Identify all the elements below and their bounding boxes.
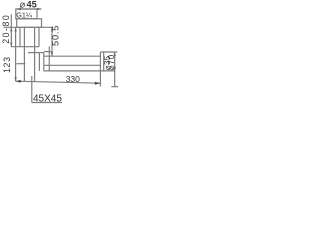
datum line: [16, 81, 101, 83]
pipe top: [44, 55, 101, 57]
arrows dim d45: [17, 8, 22, 10]
dim 123: [15, 27, 17, 81]
flange top ext: [100, 51, 117, 53]
leader 45x45: [31, 76, 33, 103]
dim 50.5: [51, 27, 53, 56]
svg-text:G1¼: G1¼: [16, 10, 33, 19]
svg-text:330: 330: [66, 74, 80, 84]
pipe mid: [44, 64, 101, 66]
svg-text:20-80: 20-80: [1, 15, 11, 44]
body shoulder: [28, 52, 44, 54]
flare y46.7: [11, 46, 39, 48]
underline 45x45: [32, 102, 62, 104]
ext y86.7: [111, 86, 118, 88]
inner tube right: [34, 27, 36, 81]
nut verticals: [38, 53, 40, 71]
pipe bottom: [44, 70, 116, 72]
ext line y27: [4, 26, 54, 28]
arrows d70: [114, 52, 116, 56]
G1 1/4 box: [16, 9, 37, 19]
svg-text:45X45: 45X45: [33, 94, 62, 105]
arrows 20-80: [10, 27, 12, 31]
inner tube left: [23, 27, 25, 81]
svg-text:⌀45: ⌀45: [20, 0, 37, 11]
flange rect: [17, 19, 42, 28]
flange verticals: [99, 52, 101, 87]
arrows 123: [14, 27, 16, 31]
water line: [17, 63, 26, 65]
dim line d45: [17, 8, 42, 10]
svg-text:⌀70: ⌀70: [107, 54, 116, 70]
arrows datum 330: [16, 80, 21, 83]
dim 20-80: [10, 14, 12, 47]
svg-text:50.5: 50.5: [50, 26, 60, 46]
outer tube left: [19, 27, 21, 46]
dim d70: [114, 52, 116, 87]
svg-text:123: 123: [2, 57, 12, 73]
outer tube right: [38, 27, 40, 46]
arrows 50.5: [51, 27, 53, 31]
collar: [44, 51, 52, 53]
